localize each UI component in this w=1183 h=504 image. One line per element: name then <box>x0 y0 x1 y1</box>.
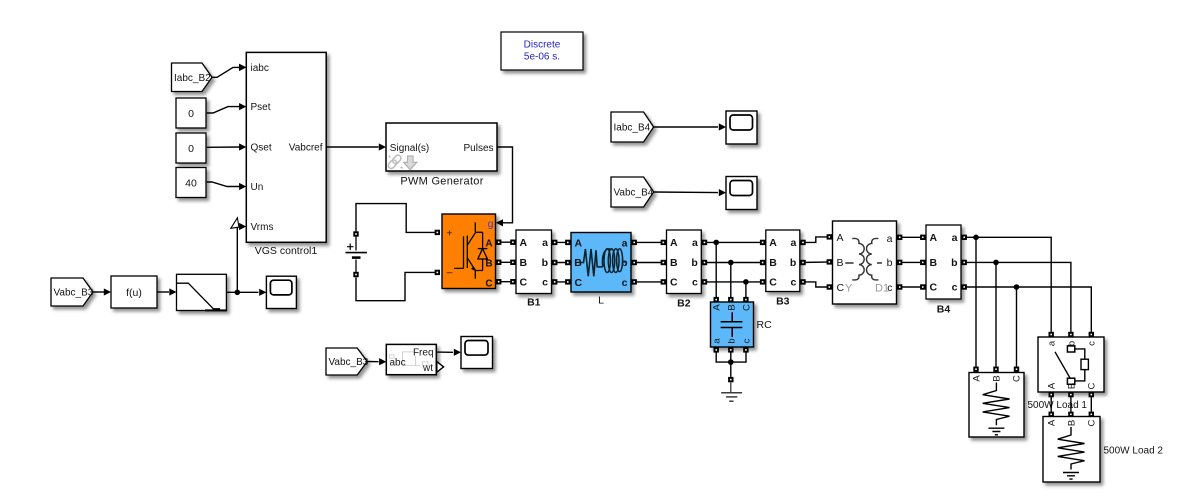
svg-text:a: a <box>952 232 958 244</box>
subsystem U1 VGS control1 <box>246 52 326 257</box>
tag Vabc_B3 <box>51 278 94 306</box>
svg-text:c: c <box>1087 341 1098 346</box>
wire Qset <box>207 143 247 150</box>
block B2 <box>667 230 702 310</box>
RC branch (blue) <box>711 302 773 347</box>
svg-text:b: b <box>887 257 893 269</box>
svg-text:c: c <box>542 277 548 289</box>
tag Vabc_B4 <box>611 177 654 207</box>
svg-text:D1: D1 <box>875 283 889 295</box>
svg-text:A: A <box>575 237 583 249</box>
scope Scope3 <box>461 337 493 369</box>
svg-text:C: C <box>930 282 938 294</box>
svg-text:A: A <box>972 375 983 382</box>
tag Iabc_B4 <box>611 112 654 142</box>
three-phase load <box>969 373 1024 438</box>
block lowpass filter <box>177 274 227 310</box>
svg-text:Qset: Qset <box>251 143 272 154</box>
svg-text:a: a <box>712 338 723 344</box>
svg-text:A: A <box>769 237 777 249</box>
wires B2 to B3 with RC taps <box>701 240 766 285</box>
tag Vabc_B3 (PLL) <box>326 348 369 375</box>
constant 0 (Pset) <box>176 98 206 128</box>
svg-text:g: g <box>488 218 494 230</box>
wire battery+ to bridge+ <box>356 204 435 233</box>
svg-text:B: B <box>670 257 678 269</box>
wire B4.c net <box>961 284 1091 332</box>
junction a to load <box>973 235 979 367</box>
svg-text:B3: B3 <box>776 296 790 308</box>
pads RC top <box>714 297 749 302</box>
svg-text:Freq: Freq <box>413 347 434 358</box>
breaker 500W Load 1 <box>1028 337 1105 411</box>
svg-text:Vabc_B4: Vabc_B4 <box>614 188 654 199</box>
wire junction to Vrms port <box>231 218 247 292</box>
svg-text:b: b <box>691 257 697 269</box>
svg-text:c: c <box>952 282 958 294</box>
pads load1 top <box>973 367 1019 372</box>
svg-text:C: C <box>670 277 678 289</box>
svg-text:B: B <box>727 304 738 310</box>
block B1 <box>516 230 552 309</box>
svg-text:Vrms: Vrms <box>251 222 274 233</box>
svg-text:A: A <box>837 232 844 244</box>
wires bridge to B1 <box>496 240 516 285</box>
svg-text:+: + <box>446 227 452 239</box>
wire Vabc_B4 to Scope2 <box>654 189 726 196</box>
svg-text:C: C <box>837 282 845 294</box>
svg-text:f(u): f(u) <box>126 287 142 299</box>
pads load2 top <box>1049 412 1095 417</box>
svg-text:5e-06 s.: 5e-06 s. <box>524 52 560 63</box>
svg-text:a: a <box>542 237 548 249</box>
junction b tap <box>728 260 734 298</box>
wires B1 to L <box>552 240 572 285</box>
svg-text:VGS control1: VGS control1 <box>255 245 318 257</box>
svg-text:c: c <box>742 338 753 343</box>
svg-text:Signal(s): Signal(s) <box>390 143 429 154</box>
svg-text:c: c <box>790 277 796 289</box>
svg-text:Pulses: Pulses <box>463 143 493 154</box>
svg-text:B: B <box>520 257 528 269</box>
junction b to load <box>993 260 999 367</box>
svg-text:40: 40 <box>185 178 197 190</box>
wires RC to ground bus <box>716 353 746 363</box>
svg-text:RC: RC <box>757 319 773 331</box>
svg-text:B: B <box>485 258 492 269</box>
arrow iabc port <box>239 64 246 71</box>
svg-text:B: B <box>837 257 844 269</box>
svg-text:A: A <box>1047 382 1058 389</box>
svg-text:500W Load 1: 500W Load 1 <box>1028 400 1088 411</box>
wire Iabc_B2 to iabc <box>212 64 246 78</box>
wires breaker to load2 <box>1051 397 1091 412</box>
svg-text:C: C <box>575 277 583 289</box>
wires B3 to transformer <box>800 234 833 245</box>
svg-text:b: b <box>542 257 548 269</box>
svg-text:L: L <box>598 295 604 307</box>
svg-text:iabc: iabc <box>251 63 269 74</box>
svg-text:a: a <box>1047 340 1058 346</box>
wires transformer to B4 <box>897 235 927 290</box>
svg-text:Pset: Pset <box>251 102 271 113</box>
svg-text:Y: Y <box>845 283 853 295</box>
svg-text:0: 0 <box>188 143 194 155</box>
ground G1 <box>721 382 742 401</box>
wire filter to scope4 junction <box>226 289 266 296</box>
constant 40 (Un) <box>176 168 206 198</box>
wire B4.a net <box>961 235 1051 332</box>
svg-text:B: B <box>992 375 1003 381</box>
wire Iabc_B4 to Scope1 <box>654 123 726 130</box>
svg-text:Iabc_B2: Iabc_B2 <box>174 73 211 84</box>
block PLL abc/Freq/wt <box>386 344 443 374</box>
svg-text:B1: B1 <box>527 297 541 309</box>
svg-text:a: a <box>790 237 796 249</box>
svg-text:wt: wt <box>422 363 433 374</box>
wire battery- to bridge- <box>356 272 435 300</box>
svg-text:c: c <box>692 277 698 289</box>
svg-text:a: a <box>887 233 893 245</box>
svg-text:C: C <box>520 277 528 289</box>
svg-text:C: C <box>485 279 492 290</box>
wire B4.b net <box>961 260 1071 332</box>
junction ground bus <box>728 359 734 382</box>
three-phase load 500W Load 2 <box>1043 417 1163 483</box>
svg-text:A: A <box>670 237 678 249</box>
svg-text:A: A <box>930 232 938 244</box>
block B4 <box>926 225 961 316</box>
wire f(u) to filter <box>157 288 177 295</box>
svg-text:B: B <box>930 257 938 269</box>
svg-text:b: b <box>727 338 738 343</box>
wire Freq to Scope3 <box>436 349 461 356</box>
svg-text:A: A <box>520 237 528 249</box>
DC voltage source battery <box>346 231 367 277</box>
IGBT bridge (orange) <box>442 214 496 290</box>
block B3 <box>766 230 800 308</box>
pads RC bottom <box>714 347 749 352</box>
junction c to load <box>1014 284 1020 366</box>
svg-text:0: 0 <box>188 108 194 120</box>
svg-text:A: A <box>712 304 723 311</box>
svg-text:Vabc_B3: Vabc_B3 <box>54 288 94 299</box>
transformer Y-D1 <box>833 221 897 304</box>
svg-text:B: B <box>769 257 777 269</box>
pads bridge left <box>435 230 440 275</box>
svg-text:C: C <box>1087 382 1098 389</box>
block PWM Generator <box>386 123 497 188</box>
junction node Vrms <box>235 290 241 296</box>
svg-text:a: a <box>622 237 628 249</box>
scope Scope2 <box>726 177 757 210</box>
pads breaker top <box>1049 332 1095 337</box>
pads breaker bottom <box>1049 392 1095 397</box>
svg-text:C: C <box>1087 419 1098 426</box>
svg-text:c: c <box>622 277 628 289</box>
svg-text:C: C <box>742 304 753 311</box>
junction c tap <box>743 279 749 297</box>
wire Pulses to g <box>496 147 513 226</box>
svg-text:b: b <box>951 257 957 269</box>
svg-text:C: C <box>769 277 777 289</box>
svg-text:Un: Un <box>251 182 264 193</box>
wire Un <box>207 182 247 190</box>
svg-text:b: b <box>790 257 796 269</box>
junction a tap <box>713 240 719 298</box>
wire Vabc_B3 to PLL <box>367 358 386 365</box>
series RL branch L (blue) <box>571 233 631 307</box>
svg-text:Iabc_B4: Iabc_B4 <box>614 123 651 134</box>
svg-text:B4: B4 <box>937 304 951 316</box>
svg-text:abc: abc <box>390 358 406 369</box>
block Discrete powergui <box>501 32 583 70</box>
svg-text:Vabc_B3: Vabc_B3 <box>329 357 369 368</box>
svg-text:a: a <box>692 237 698 249</box>
svg-text:500W Load 2: 500W Load 2 <box>1104 446 1164 457</box>
svg-text:A: A <box>1047 419 1058 426</box>
block Fcn f(u) <box>111 276 157 308</box>
svg-text:B2: B2 <box>677 298 691 310</box>
svg-text:B: B <box>1067 420 1078 426</box>
scope Scope4 <box>266 276 296 308</box>
scope Scope1 <box>726 111 757 144</box>
constant 0 (Qset) <box>176 133 206 163</box>
wire Pset <box>207 103 247 113</box>
wire Vabc_B3 to f(u) <box>93 288 111 295</box>
svg-text:Vabcref: Vabcref <box>289 143 323 154</box>
wire Vabcref to PWM <box>326 143 386 150</box>
svg-text:C: C <box>1012 375 1023 382</box>
wires L to B2 <box>631 240 667 285</box>
tag Iabc_B2 <box>172 63 213 92</box>
svg-text:PWM Generator: PWM Generator <box>400 176 483 188</box>
svg-text:Discrete: Discrete <box>524 40 561 51</box>
svg-text:–: – <box>447 267 453 279</box>
